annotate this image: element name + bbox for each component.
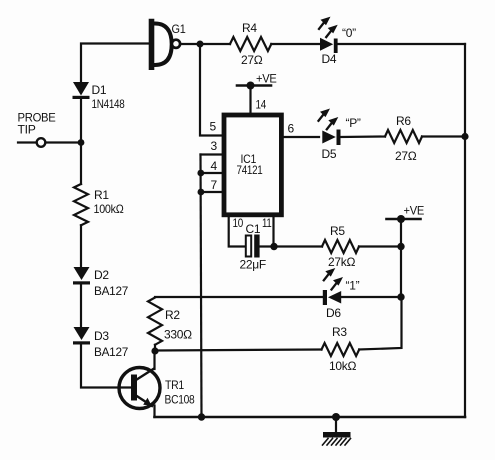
- svg-text:“1”: “1”: [346, 279, 360, 293]
- wire pin 6 to D5: [284, 136, 319, 138]
- LED D5 arrow 1: [319, 109, 331, 121]
- node R2 bottom: [151, 347, 158, 354]
- resistor R1: [74, 184, 88, 225]
- svg-text:R3: R3: [332, 325, 347, 339]
- diode D2: [73, 267, 90, 285]
- diode D3: [73, 327, 90, 345]
- wire D2 to D3: [80, 285, 82, 328]
- wire D6 to +VE column: [341, 296, 401, 298]
- ground: [323, 417, 351, 445]
- svg-text:5: 5: [210, 120, 217, 134]
- svg-text:330Ω: 330Ω: [164, 328, 192, 342]
- wire pin 10 to C1: [229, 217, 246, 247]
- wire R5 to +VE node: [359, 245, 401, 247]
- wire D4 to right rail: [338, 43, 465, 45]
- svg-text:4: 4: [211, 159, 218, 173]
- +VE supply bar left: [237, 84, 271, 87]
- svg-text:14: 14: [256, 98, 267, 112]
- svg-text:6: 6: [288, 122, 295, 136]
- svg-text:D6: D6: [326, 306, 341, 320]
- LED D4: [320, 38, 338, 53]
- wire R3 right corner up to D6 node: [359, 297, 401, 350]
- LED D4 arrow 1: [319, 17, 331, 29]
- node D6 right: [397, 293, 404, 300]
- wire left rail D1 cathode to probe node: [80, 99, 82, 143]
- svg-text:74121: 74121: [237, 165, 263, 177]
- svg-text:22μF: 22μF: [240, 258, 266, 272]
- transistor TR1: [119, 368, 160, 409]
- probe tip terminal: [37, 138, 46, 147]
- LED D4 arrow 2: [326, 25, 338, 37]
- svg-text:D4: D4: [322, 52, 337, 66]
- resistor R3: [322, 343, 360, 356]
- node R6 right rail junction: [461, 133, 468, 140]
- node pin 4 junction: [197, 170, 204, 177]
- svg-text:3: 3: [211, 139, 218, 153]
- svg-text:27Ω: 27Ω: [395, 149, 417, 163]
- LED D6 arrow 2: [332, 277, 344, 290]
- node pin 7 junction: [198, 189, 205, 196]
- wire right rail: [464, 44, 466, 417]
- wire pin 14 to +VE: [249, 86, 251, 114]
- wire +VE right stem: [400, 219, 402, 247]
- svg-text:100kΩ: 100kΩ: [94, 202, 124, 216]
- wire R2 top to D6: [155, 296, 322, 298]
- svg-text:R5: R5: [330, 224, 345, 238]
- svg-text:D1: D1: [92, 83, 107, 97]
- svg-text:27Ω: 27Ω: [241, 53, 263, 67]
- wire left rail top corner to gate input: [81, 44, 149, 83]
- +VE supply bar right: [387, 218, 421, 221]
- wire D5 to R6: [341, 135, 386, 138]
- LED D6 arrow 1: [324, 268, 336, 280]
- wire pins 3-4-7 bracket down to ground rail: [201, 155, 202, 418]
- pin 7 stub: [201, 191, 222, 193]
- resistor R6: [385, 130, 422, 143]
- svg-text:TR1: TR1: [165, 378, 185, 392]
- wire D3 to TR1 base: [81, 345, 134, 388]
- wire probe node to R1: [80, 143, 82, 185]
- resistor R4: [230, 37, 271, 51]
- svg-text:27kΩ: 27kΩ: [328, 255, 355, 269]
- node gate output junction: [197, 41, 204, 48]
- svg-text:BC108: BC108: [165, 393, 196, 407]
- gate G1: [152, 22, 181, 68]
- svg-text:“0”: “0”: [342, 26, 356, 40]
- resistor R2: [148, 298, 162, 345]
- node probe junction: [78, 139, 85, 146]
- LED D6: [323, 290, 341, 305]
- svg-text:7: 7: [211, 178, 218, 192]
- node pin 11 junction: [270, 243, 277, 250]
- svg-text:R4: R4: [242, 21, 257, 35]
- svg-text:D3: D3: [94, 329, 109, 343]
- svg-text:R1: R1: [94, 188, 109, 202]
- wire R4 to D4: [271, 43, 320, 45]
- svg-text:C1: C1: [246, 222, 261, 236]
- resistor R5: [322, 240, 359, 253]
- node +VE right: [397, 215, 405, 223]
- svg-text:10: 10: [233, 216, 244, 230]
- wire junction down to pin 5: [200, 44, 221, 136]
- node ground junction: [332, 413, 340, 421]
- wire gate output to R4: [180, 43, 230, 45]
- wire R2 bottom to node: [154, 345, 156, 351]
- wire R1 bottom to D2: [80, 225, 82, 267]
- wire pin 11 down: [272, 217, 274, 247]
- svg-text:+VE: +VE: [404, 204, 425, 218]
- svg-text:R6: R6: [396, 114, 411, 128]
- pin 4 stub: [201, 172, 222, 174]
- node pins 3-4-7 ground junction: [198, 413, 205, 420]
- IC1 74121 body: [224, 115, 281, 215]
- svg-text:D2: D2: [94, 268, 109, 282]
- svg-text:R2: R2: [165, 308, 180, 322]
- svg-text:+VE: +VE: [256, 72, 277, 86]
- LED D5: [322, 130, 340, 146]
- pin 3 stub: [201, 153, 222, 155]
- wire probe tip to left rail: [46, 141, 82, 143]
- svg-text:11: 11: [262, 216, 272, 230]
- svg-text:G1: G1: [172, 22, 187, 36]
- svg-text:TIP: TIP: [18, 123, 36, 137]
- wire ground rail: [155, 416, 466, 419]
- svg-text:“P”: “P”: [346, 116, 361, 130]
- wire TR1 collector up to R2 node: [153, 351, 155, 369]
- wire C1 to R5: [260, 245, 322, 247]
- svg-text:BA127: BA127: [94, 345, 129, 359]
- capacitor C1: [246, 235, 260, 258]
- wire R2 node to R3: [155, 350, 322, 351]
- svg-text:BA127: BA127: [94, 284, 129, 298]
- wire probe tip left stub: [18, 141, 36, 143]
- svg-text:10kΩ: 10kΩ: [329, 359, 356, 373]
- svg-text:D5: D5: [322, 147, 337, 161]
- wire +VE node down to D6 row: [400, 247, 402, 298]
- diode D1: [73, 82, 90, 99]
- node +VE left: [247, 82, 255, 90]
- wire R6 to right rail: [422, 135, 465, 137]
- svg-text:1N4148: 1N4148: [92, 99, 125, 111]
- wire TR1 emitter down to ground rail: [153, 406, 155, 418]
- node R5 right: [397, 243, 404, 250]
- LED D5 arrow 2: [327, 117, 339, 129]
